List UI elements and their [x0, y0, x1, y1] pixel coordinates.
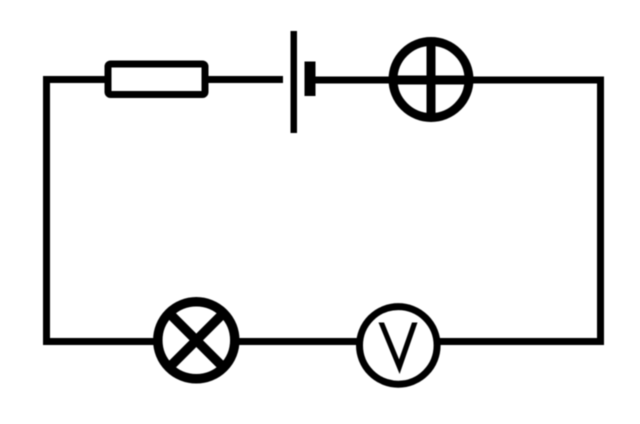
wire: bottom segment from left corner to lamp — [43, 338, 156, 345]
wire: top-left segment from corner to resistor — [43, 76, 107, 83]
lamp (circle with X cross) — [158, 302, 235, 379]
wire: top segment from circle-plus to top-right corner — [471, 77, 604, 84]
wire: right vertical side — [597, 77, 604, 346]
voltmeter V — [360, 307, 438, 385]
wire: top segment from battery to circle-plus component — [310, 77, 392, 84]
wire: left vertical side — [43, 77, 50, 345]
battery cell: short thick plate (negative) — [305, 62, 316, 97]
resistor — [108, 64, 205, 95]
wire: top segment from resistor to battery — [206, 76, 283, 83]
wire: bottom segment from voltmeter to right corner — [438, 338, 604, 345]
circle-plus component (lamp/generator symbol) — [389, 38, 473, 121]
battery cell: long plate (positive) — [291, 31, 298, 133]
wire: bottom segment from lamp to voltmeter — [236, 338, 359, 345]
